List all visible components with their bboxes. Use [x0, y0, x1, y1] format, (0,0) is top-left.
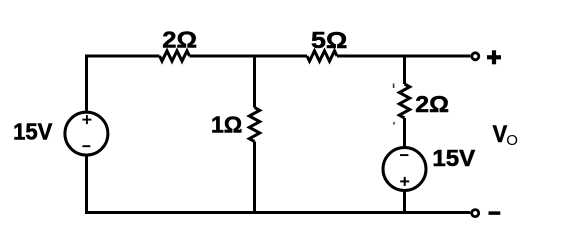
svg-text:15V: 15V: [13, 119, 52, 145]
resistor R1 2Ω (top left, horizontal zigzag): [160, 51, 190, 61]
svg-text:15V: 15V: [432, 146, 475, 171]
polarity marks inside source V1: + (top): [82, 115, 91, 124]
wire: middle branch lower segment: [253, 142, 256, 213]
resistor R3 5Ω (top right, horizontal zigzag): [307, 51, 337, 61]
wire: top rail between R1 and R3: [190, 55, 308, 58]
wire: right branch from node B down to R4: [403, 56, 406, 84]
polarity marks inside source V1: − (bottom): [82, 145, 90, 147]
voltage source V1 15V (left) circle: [65, 112, 108, 155]
wire: right branch from V2 to bottom rail: [403, 191, 406, 213]
terminal: − sign at output: [489, 211, 501, 215]
wire: top rail from R3 through node B to + terminal: [337, 55, 470, 58]
svg-text:O: O: [506, 132, 518, 149]
polarity marks inside source V2: + (bottom): [400, 177, 409, 186]
wire: left branch from source V1 to bottom rail: [85, 156, 88, 213]
wire: top-left segment from left branch corner to R1: [87, 56, 160, 111]
resistor R2 1Ω (middle, vertical zigzag): [249, 108, 259, 142]
terminal: + sign at output: [487, 50, 501, 64]
stray tick marks left of resistor R4: [393, 84, 395, 125]
resistor R4 2Ω (right, vertical zigzag): [399, 84, 409, 118]
wire: bottom rail: [85, 211, 470, 214]
terminal: + output terminal (open circle): [472, 53, 479, 60]
stray tick mark left of resistor R2: [240, 129, 242, 131]
svg-text:5Ω: 5Ω: [311, 28, 347, 54]
terminal: − output terminal (open circle): [472, 210, 479, 217]
svg-text:2Ω: 2Ω: [415, 92, 449, 118]
polarity marks inside source V2: − (top): [400, 154, 408, 156]
wire: middle branch upper segment: [253, 56, 256, 108]
voltage source V2 15V (right) circle: [383, 148, 426, 191]
wire: right branch between R4 and source V2: [403, 118, 406, 147]
svg-text:2Ω: 2Ω: [162, 28, 197, 54]
svg-text:1Ω: 1Ω: [211, 112, 242, 138]
